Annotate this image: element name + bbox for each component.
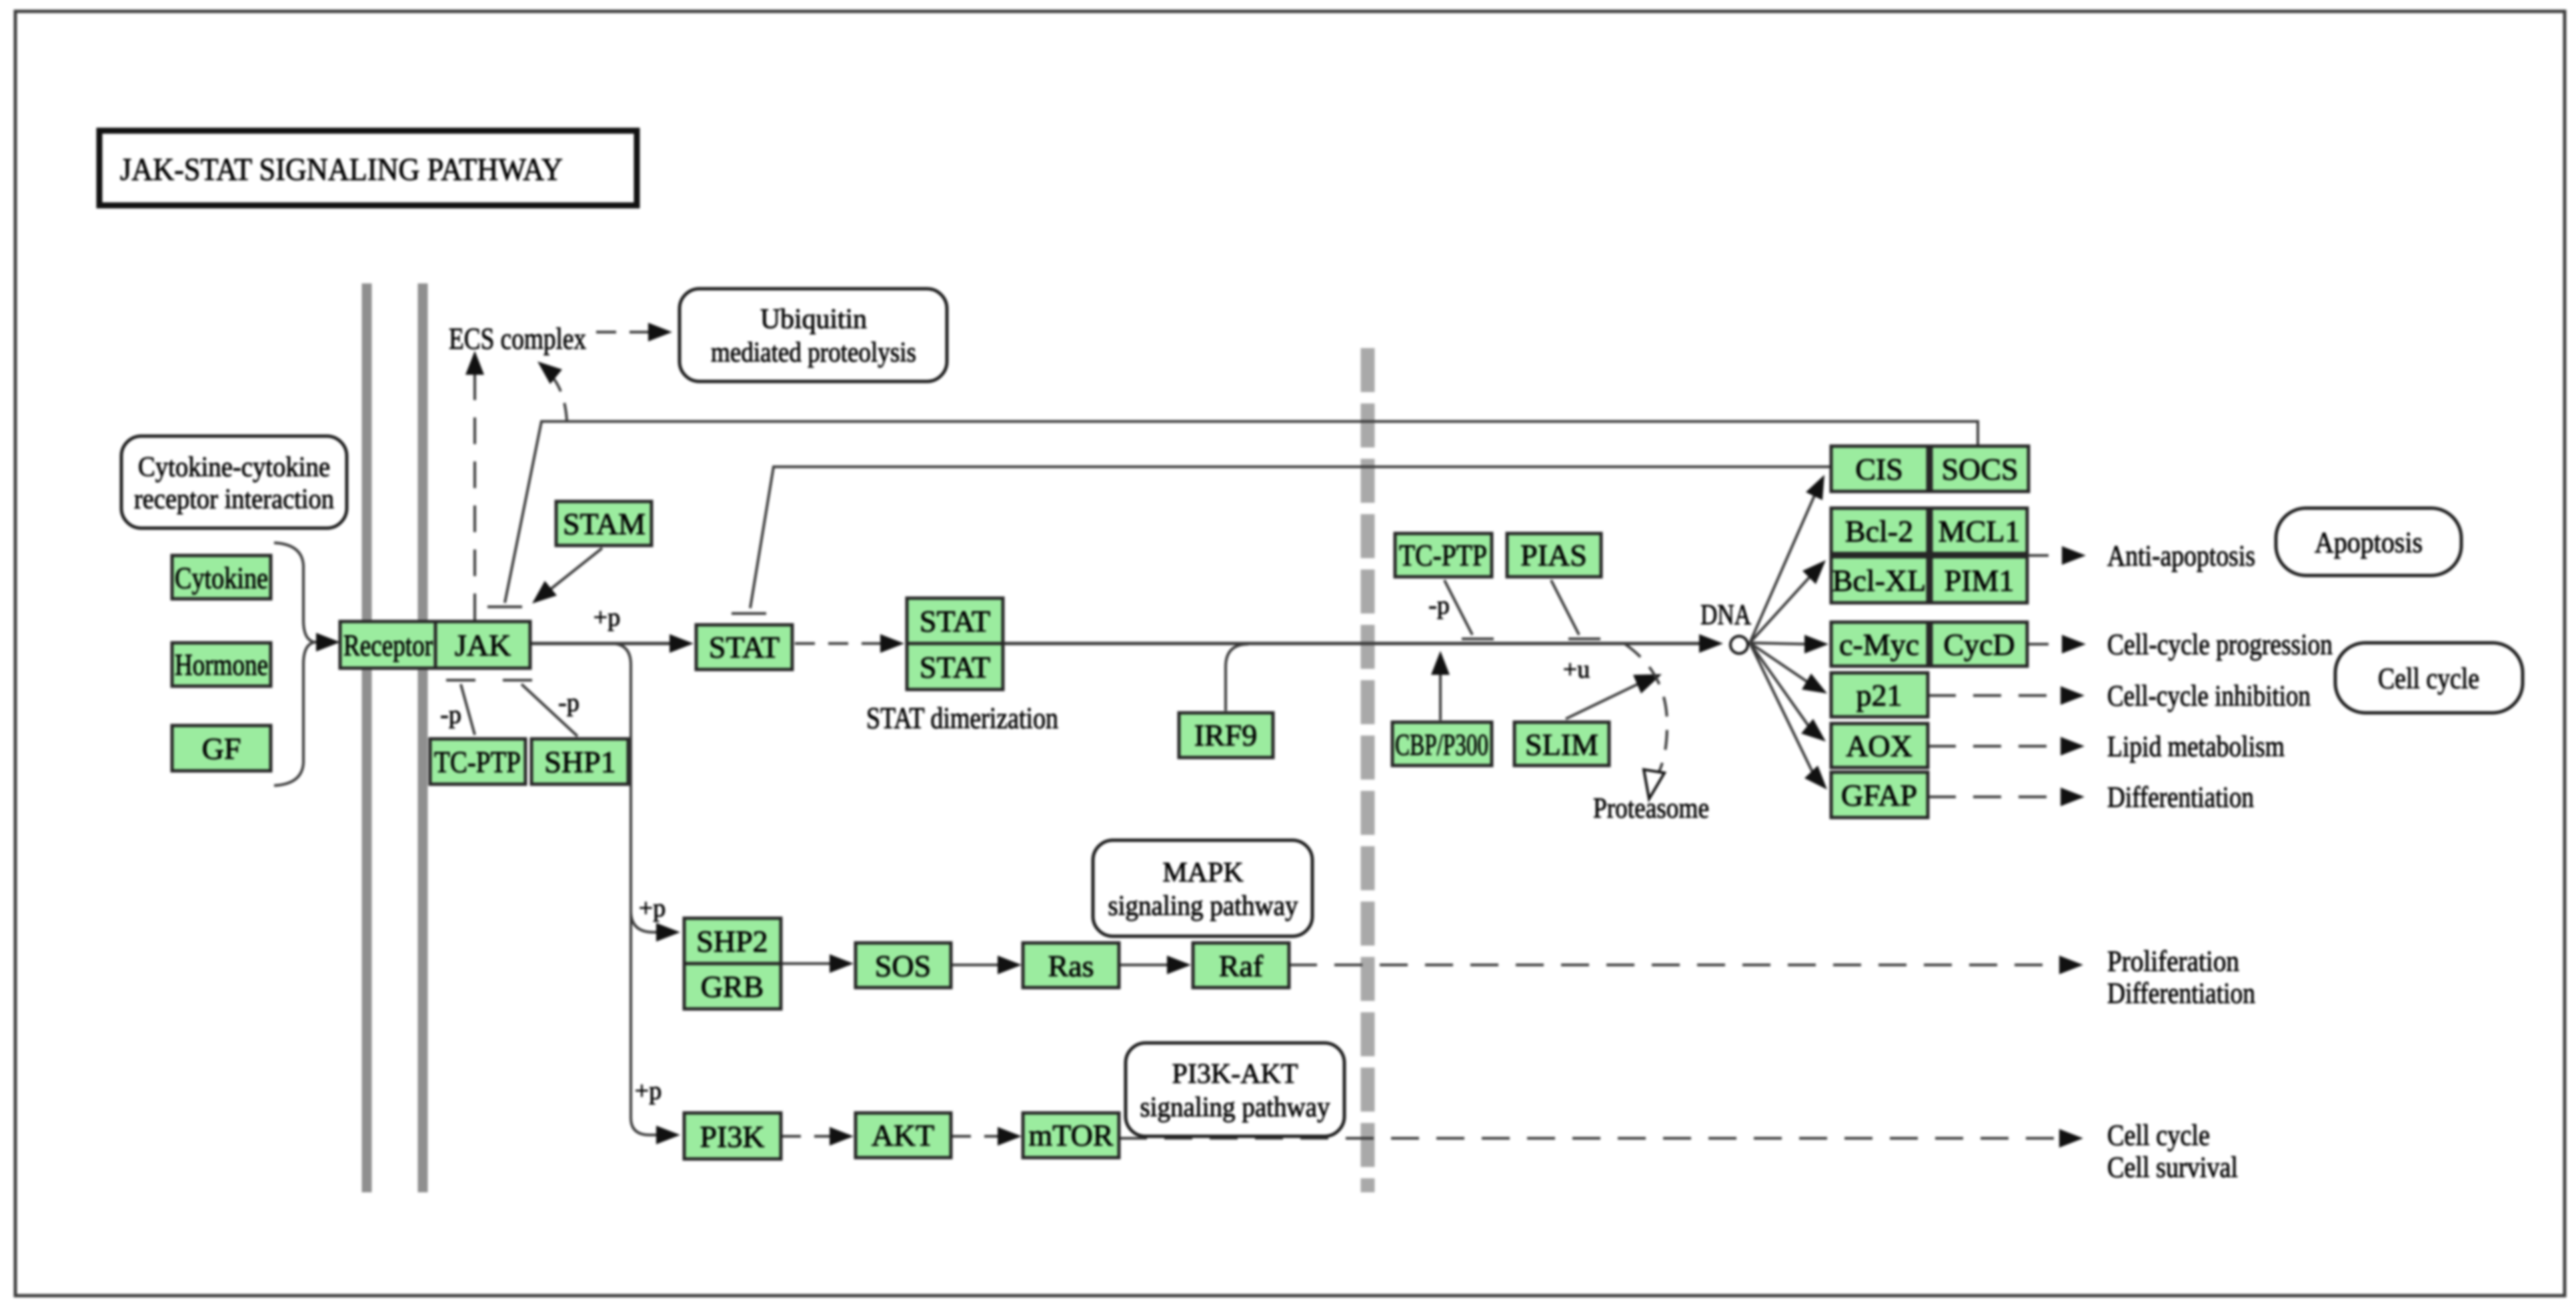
wire anti-apoptosis dashed [2029, 554, 2067, 557]
svg-text:Cell-cycle inhibition: Cell-cycle inhibition [2107, 680, 2311, 712]
svg-text:Proteasome: Proteasome [1593, 793, 1709, 824]
tee PIAS bar [1568, 637, 1600, 640]
pathway box PI3K-AKT signaling pathway [1126, 1043, 1344, 1136]
node Bcl-2 [1831, 508, 1928, 553]
svg-text:Cytokine-cytokine: Cytokine-cytokine [138, 452, 330, 483]
node CycD [1931, 622, 2027, 666]
svg-text:Hormone: Hormone [175, 647, 268, 682]
node CBP/P300 [1392, 722, 1492, 766]
tee TC-PTP nucleus bar [1462, 637, 1494, 640]
node Receptor [340, 621, 435, 668]
svg-text:Cytokine: Cytokine [175, 561, 268, 595]
pathway box Cell cycle [2335, 643, 2523, 713]
svg-text:mTOR: mTOR [1029, 1118, 1114, 1152]
node CIS [1831, 446, 1928, 491]
wire SHP1 tee to JAK [521, 684, 577, 736]
svg-text:GF: GF [202, 732, 241, 766]
wire brace cytokine group [274, 543, 315, 786]
svg-text:Receptor: Receptor [343, 628, 433, 662]
node SHP2 [684, 918, 781, 964]
pathway box MAPK signaling pathway [1093, 840, 1312, 936]
svg-text:+p: +p [635, 1077, 662, 1105]
wire mTOR cell cycle dashed [1119, 1137, 2061, 1140]
node TC-PTP nucleus [1395, 533, 1492, 577]
wire AKT to mTOR dashed [951, 1135, 1002, 1138]
svg-text:ECS complex: ECS complex [449, 322, 586, 355]
wire ECS dashed vertical [473, 368, 476, 620]
svg-text:CBP/P300: CBP/P300 [1395, 728, 1488, 762]
wire cell-cycle progression dashed [2029, 643, 2067, 645]
svg-text:p21: p21 [1856, 678, 1902, 712]
node PIM1 [1931, 557, 2027, 603]
svg-text:JAK: JAK [455, 628, 511, 662]
svg-text:SLIM: SLIM [1525, 728, 1598, 762]
svg-text:Bcl-2: Bcl-2 [1845, 514, 1913, 548]
node STAT dimer bottom [907, 643, 1003, 690]
wire SHP2 to SOS [781, 962, 832, 965]
node c-Myc [1831, 622, 1928, 666]
pathway box ubiquitin mediated proteolysis [680, 289, 947, 381]
nuclear membrane dashed bar [1361, 348, 1375, 1192]
svg-text:+u: +u [1563, 656, 1590, 684]
node MCL1 [1931, 508, 2027, 553]
wires DNA fan-out arrows [1750, 493, 1816, 643]
svg-text:GRB: GRB [701, 970, 764, 1004]
node SOS [856, 943, 951, 988]
wire SOCS feedback to JAK [505, 421, 1978, 603]
svg-text:STAT: STAT [709, 630, 780, 664]
wire branch to SHP2 [631, 911, 659, 932]
pathway box Apoptosis [2276, 508, 2461, 575]
svg-text:Cell cycle: Cell cycle [2107, 1119, 2210, 1152]
node DNA circle [1730, 636, 1748, 653]
svg-text:+p: +p [639, 894, 666, 922]
svg-text:SOS: SOS [875, 949, 931, 983]
wire PI3K to AKT dashed [781, 1135, 834, 1138]
svg-text:SHP1: SHP1 [544, 745, 615, 779]
svg-text:MAPK: MAPK [1162, 858, 1243, 888]
pathway box cytokine-cytokine receptor interaction [121, 436, 347, 528]
svg-text:Lipid metabolism: Lipid metabolism [2107, 730, 2285, 763]
node PIAS [1507, 533, 1601, 577]
node STAT dimer top [907, 598, 1003, 643]
svg-text:Raf: Raf [1219, 949, 1264, 983]
node Ras [1023, 943, 1119, 988]
svg-text:TC-PTP: TC-PTP [1399, 538, 1487, 572]
svg-text:Cell survival: Cell survival [2107, 1151, 2238, 1184]
tee SHP1 bar [503, 679, 532, 682]
wire SOS to Ras [951, 964, 1002, 966]
node Bcl-XL [1831, 557, 1928, 603]
svg-text:STAT dimerization: STAT dimerization [866, 702, 1058, 735]
wire SOCS to ECS dashed arc [543, 368, 567, 420]
svg-text:receptor interaction: receptor interaction [134, 484, 334, 515]
wire CBP/P300 arrow up [1439, 668, 1442, 720]
svg-text:-p: -p [558, 689, 579, 717]
node p21 [1831, 673, 1928, 717]
node SLIM [1514, 722, 1609, 766]
svg-text:signaling pathway: signaling pathway [1140, 1092, 1330, 1123]
wire IRF9 connector [1226, 644, 1248, 711]
svg-text:STAT: STAT [920, 604, 990, 638]
svg-text:DNA: DNA [1700, 599, 1751, 631]
title box [99, 131, 637, 205]
svg-text:MCL1: MCL1 [1939, 514, 2021, 548]
svg-text:Proliferation: Proliferation [2107, 945, 2239, 978]
wire STAM to JAK arrow [547, 548, 602, 592]
svg-text:PI3K: PI3K [700, 1120, 764, 1154]
plasma membrane bar 1 [362, 283, 372, 1192]
arrow brace to Receptor [315, 641, 324, 643]
svg-text:-p: -p [440, 701, 461, 729]
node Cytokine [172, 555, 271, 599]
wire SLIM to proteasome arrow [1566, 682, 1642, 719]
svg-text:STAM: STAM [563, 507, 646, 541]
svg-text:Ras: Ras [1048, 949, 1094, 983]
svg-text:PI3K-AKT: PI3K-AKT [1172, 1059, 1298, 1090]
node Hormone [172, 643, 271, 686]
wire PIAS tee [1551, 580, 1579, 635]
node TC-PTP membrane [430, 739, 525, 784]
svg-text:AKT: AKT [872, 1118, 935, 1152]
wire differentiation dashed [1928, 796, 2062, 798]
svg-text:Differentiation: Differentiation [2107, 781, 2254, 814]
tee STAT inhibition bar [732, 612, 766, 615]
node GF [172, 726, 271, 771]
svg-text:STAT: STAT [920, 650, 990, 684]
svg-text:SOCS: SOCS [1941, 452, 2018, 486]
svg-text:Cell-cycle progression: Cell-cycle progression [2107, 628, 2333, 661]
wire TC-PTP nucleus tee [1444, 580, 1472, 635]
node GFAP [1831, 772, 1928, 818]
svg-text:mediated proteolysis: mediated proteolysis [711, 337, 916, 368]
wire STAT dimerization dashed [795, 642, 895, 645]
svg-text:+p: +p [593, 603, 620, 631]
svg-text:-p: -p [1428, 591, 1450, 619]
node GRB [684, 964, 781, 1009]
svg-text:JAK-STAT SIGNALING PATHWAY: JAK-STAT SIGNALING PATHWAY [120, 152, 563, 187]
svg-text:Differentiation: Differentiation [2107, 977, 2255, 1010]
wire proteasome dashed curve [1625, 644, 1667, 782]
svg-text:TC-PTP: TC-PTP [434, 745, 521, 779]
svg-text:CIS: CIS [1855, 452, 1903, 486]
svg-text:Anti-apoptosis: Anti-apoptosis [2107, 539, 2255, 572]
node IRF9 [1179, 713, 1273, 758]
node SOCS [1931, 446, 2029, 491]
node mTOR [1023, 1113, 1119, 1158]
svg-text:PIAS: PIAS [1520, 538, 1587, 572]
svg-text:Cell cycle: Cell cycle [2378, 662, 2479, 695]
wire ECS to Ubiquitin dashed [596, 331, 648, 333]
wire lipid metabolism dashed [1928, 745, 2062, 748]
svg-text:CycD: CycD [1943, 627, 2015, 662]
svg-text:GFAP: GFAP [1841, 778, 1917, 812]
svg-text:Apoptosis: Apoptosis [2315, 526, 2423, 559]
node STAT [696, 625, 792, 670]
wire Raf proliferation dashed [1289, 964, 2061, 966]
node Raf [1193, 943, 1289, 988]
plasma membrane bar 2 [418, 283, 428, 1192]
node SHP1 [531, 739, 628, 784]
wire JAK branch down [611, 643, 659, 1135]
svg-text:AOX: AOX [1846, 729, 1912, 763]
svg-text:signaling pathway: signaling pathway [1108, 891, 1298, 922]
svg-text:IRF9: IRF9 [1194, 718, 1258, 752]
wire cell-cycle inhibition dashed [1928, 694, 2062, 697]
wire STAT dimer to DNA [1003, 642, 1707, 645]
node PI3K [684, 1113, 781, 1159]
svg-text:Bcl-XL: Bcl-XL [1832, 563, 1926, 597]
node JAK [435, 621, 530, 668]
node STAM [556, 501, 652, 545]
node AOX [1831, 724, 1928, 768]
wire Ras to Raf [1119, 964, 1171, 966]
node AKT [856, 1113, 951, 1158]
wire JAK to STAT [530, 642, 676, 645]
tee JAK inhibition bar [487, 605, 522, 608]
wire TC-PTP tee to JAK [461, 684, 475, 735]
wire CIS feedback to STAT [750, 467, 1831, 608]
tee TC-PTP bar [446, 679, 475, 682]
svg-text:SHP2: SHP2 [696, 924, 768, 958]
svg-text:Ubiquitin: Ubiquitin [760, 304, 867, 335]
svg-text:PIM1: PIM1 [1945, 563, 2015, 597]
svg-text:c-Myc: c-Myc [1839, 627, 1919, 662]
